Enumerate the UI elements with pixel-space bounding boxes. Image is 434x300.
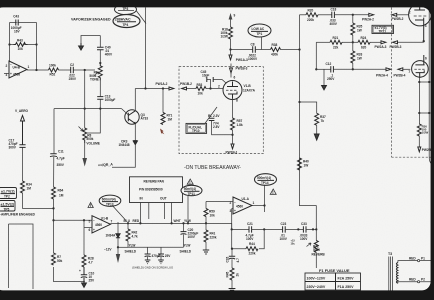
wire collector up [134, 89, 136, 111]
wire minus bus junction [83, 219, 85, 221]
node tone rail [99, 107, 101, 109]
wire box pointer [205, 107, 217, 123]
test point oval TP13 [99, 195, 121, 206]
capacitor C18 [330, 8, 338, 27]
wire vertical C12 rail [315, 42, 317, 69]
node B rail top [298, 48, 300, 50]
connector arrow PW1B-1 [226, 144, 238, 155]
resistor R28 [82, 255, 94, 267]
wire shield row [128, 246, 184, 248]
op-amp U1-A [230, 197, 255, 214]
node R36 top [418, 112, 420, 114]
potentiometer R72 REVERB [312, 241, 326, 257]
node collector row A [144, 87, 146, 89]
node filter left [231, 228, 233, 230]
tube V2-A [409, 3, 432, 41]
shield cap 1 [145, 247, 161, 263]
connector arrow PW2B-7 [418, 147, 432, 152]
wire rail minus chain [83, 235, 85, 255]
resistor R52 [49, 64, 59, 77]
capacitor C45 [201, 70, 227, 89]
capacitor bypass [209, 118, 215, 120]
wire [342, 41, 358, 43]
bypass branch wire [212, 121, 233, 135]
wire arrow stem [117, 247, 119, 254]
wire cathode down [232, 99, 234, 119]
wire oval pointer [137, 11, 147, 24]
ground [82, 278, 87, 288]
wire long rail [145, 8, 147, 89]
capacitor C8 [248, 42, 258, 61]
capacitor C23 [280, 222, 288, 241]
resistor R59 [204, 202, 215, 218]
ground R37 [314, 134, 319, 140]
ground R45 bars [229, 289, 236, 291]
wire [22, 147, 24, 181]
resistor R34 [21, 181, 33, 193]
wire bus to C26 [231, 223, 233, 229]
node C21 right [263, 228, 265, 230]
wire [255, 49, 270, 51]
wire [352, 35, 354, 51]
wire [352, 63, 354, 69]
wire output [252, 205, 265, 207]
node R18 bottom [229, 48, 231, 50]
resistor R44 [246, 242, 258, 256]
ground drop [323, 69, 325, 85]
wire row [231, 49, 253, 51]
resistor R64 [52, 187, 64, 199]
potentiometer R8 VOLUME [83, 128, 100, 146]
wire tone rail to junction [87, 81, 101, 133]
capacitor C10 [79, 267, 95, 283]
connector arrow PW2B-3 [390, 40, 425, 49]
connector arrow PW2B-4 [394, 68, 411, 78]
node bus OUT [170, 222, 172, 224]
capacitor C13 [97, 95, 115, 103]
wire [73, 69, 95, 71]
node collector row B [162, 87, 164, 89]
wire op-amp inputs [4, 66, 10, 74]
capacitor C20 [181, 222, 199, 247]
warning triangle [88, 203, 93, 208]
diode D1 [106, 222, 121, 238]
wire oval pointer [113, 206, 126, 220]
node bus TP11 [187, 222, 189, 224]
wiper arrow volume [79, 127, 84, 132]
node volume tap [84, 107, 86, 109]
fuse table box [305, 273, 361, 290]
node R33 bottom [352, 68, 354, 70]
transformer T3 [388, 252, 433, 291]
wire oval stem [261, 37, 263, 50]
capacitor C33 [300, 222, 309, 241]
wire main rail down [300, 15, 317, 241]
wire minus input row [206, 201, 233, 203]
ground R37 [316, 125, 318, 134]
resistor R57 [231, 118, 243, 130]
wire R37 branch [300, 102, 317, 113]
node output junction [35, 69, 37, 71]
wire signal bus [118, 222, 232, 224]
wire cathode junction [232, 130, 234, 144]
ground R41 [205, 242, 207, 250]
boxed TP label 1 [0, 188, 17, 199]
boxed TP label 2 [0, 201, 15, 212]
ground [79, 43, 84, 50]
capacitor C21 [246, 222, 255, 241]
shield cap 2 [158, 247, 171, 263]
fuse table [319, 268, 350, 273]
wire reverb leads [140, 203, 171, 224]
node -12V row [117, 246, 119, 248]
wire rail to bus [54, 199, 93, 220]
ground R41 bars [203, 250, 209, 254]
capacitor C2 [69, 63, 77, 81]
wire R42 bottom [127, 241, 129, 247]
wire row [118, 246, 128, 248]
wire [370, 41, 381, 43]
resistor R33 [351, 51, 363, 63]
connector arrow PW2B-2 [392, 13, 409, 20]
resistor R20 [306, 8, 318, 21]
tube V1-B [223, 81, 256, 103]
wire volume bottom [84, 143, 86, 158]
wire input drop [83, 220, 85, 227]
node input bus [52, 219, 54, 221]
wire bottom row [54, 267, 85, 282]
resistor R42 [126, 223, 138, 241]
power arrow down [116, 254, 120, 263]
resistor R21 [330, 36, 342, 50]
wire top B row [300, 14, 307, 16]
wire [252, 228, 283, 230]
node cathode V2-B [418, 81, 420, 83]
node pot rail [315, 228, 317, 230]
wire pot bottom [315, 253, 317, 269]
small note [291, 239, 296, 246]
node bus R59 [205, 222, 207, 224]
test point oval TP11 [181, 185, 202, 196]
wire cathode rail [419, 77, 421, 124]
potentiometer R6 TONE [89, 62, 102, 82]
wire to ground [81, 36, 100, 44]
node C23 right [297, 228, 299, 230]
test point oval TP14 [255, 174, 277, 186]
capacitor C12 [326, 62, 336, 81]
wire R7 top [53, 220, 55, 253]
connector arrow PW1B-2 [180, 82, 192, 90]
ground [231, 280, 233, 289]
capacitor C26 [226, 256, 240, 262]
wire signal row [54, 108, 122, 110]
wire base [122, 109, 129, 115]
connector arrow PW2A-4 [376, 68, 391, 78]
wire tone rail up [99, 50, 101, 63]
wire to tube grid [206, 88, 223, 90]
resistor R24 [358, 36, 370, 50]
connector arrow PW1A-3 [229, 50, 248, 62]
wiper arrow tone [94, 72, 99, 76]
capacitor C11 [50, 150, 65, 168]
wire rail R35 [352, 15, 354, 23]
wire R21 row [316, 41, 330, 43]
wire op-amp output [27, 69, 49, 71]
wire plus input [84, 228, 92, 235]
wire [418, 136, 420, 147]
node grid [209, 87, 211, 89]
wire emitter down [134, 124, 136, 141]
resistor R37 [315, 113, 326, 125]
node junction [8, 43, 10, 45]
resistor R45 [226, 268, 240, 280]
capacitor C43 [11, 15, 22, 34]
node plate row [352, 14, 354, 16]
wire oval stem [264, 185, 266, 205]
connector arrow PW1B-3 [230, 64, 248, 73]
tube V2-B [408, 55, 428, 78]
resistor R53 [196, 83, 206, 96]
node cathode [231, 134, 233, 136]
wire filter row [232, 228, 249, 230]
node feedback right [35, 43, 37, 45]
wire [318, 14, 332, 16]
wire [231, 259, 233, 268]
wire op-amp out [111, 223, 119, 225]
connector arrow PW2A-3 [375, 41, 387, 49]
node R34 row [52, 207, 54, 209]
resistor R40 [298, 158, 310, 170]
node U1-A out [263, 204, 265, 206]
test point oval TP3 [115, 5, 137, 15]
op-amp U4 [6, 61, 30, 78]
warning triangle [187, 179, 193, 185]
wire oval stem [187, 196, 189, 224]
wire grid row [187, 88, 197, 90]
resistor R41 [204, 223, 217, 242]
resistor R36 [417, 124, 428, 136]
power arrow B+ [229, 13, 236, 27]
wire C11 rail [53, 109, 55, 187]
measurement notes [208, 114, 220, 129]
wire R43 leads [10, 44, 37, 46]
node R37 branch [298, 101, 300, 103]
wire [285, 228, 303, 230]
power arrow down [82, 158, 87, 167]
wire volume drop [84, 70, 86, 128]
test point oval 288VAC TP4 [113, 15, 140, 28]
capacitor C40 [97, 36, 113, 57]
node C33 right [312, 228, 314, 230]
node bus R42 [127, 222, 129, 224]
wire C26 chain [231, 249, 233, 257]
wire C12 row [316, 68, 331, 70]
wire diode bottom [117, 238, 119, 248]
connector arrow PW2A-2 [362, 13, 374, 21]
node C26 top [231, 248, 233, 250]
warning triangle [270, 189, 276, 195]
ground C12 [322, 86, 327, 90]
node V_AERO [15, 109, 29, 145]
node C10 row [83, 281, 85, 283]
node R35 bottom [352, 41, 354, 43]
wire out drop [264, 206, 266, 213]
wire [306, 228, 316, 230]
wire R59 to bus [205, 217, 207, 224]
wire feedback top [10, 23, 37, 71]
wire [334, 14, 368, 16]
wire feedback loop R44 [232, 229, 265, 248]
reverb pan box [130, 177, 183, 203]
node C2 out [84, 69, 86, 71]
wiper arrow reverb [307, 243, 312, 247]
wire R36 row [419, 112, 429, 114]
transistor Q3 [125, 110, 148, 124]
connector arrow PW1A-2 [156, 82, 174, 90]
wire corner to rail [23, 193, 54, 208]
resistor R38 [271, 43, 281, 57]
boxed TP label TP21 [372, 25, 394, 33]
resistor R7 [52, 253, 63, 265]
diode CR3 [119, 140, 138, 148]
wire plate [230, 73, 232, 78]
wire [59, 69, 71, 71]
wire heater bus [419, 81, 429, 83]
dashed page split [392, 8, 434, 158]
wire collector row [135, 88, 169, 90]
resistor R71 [161, 89, 173, 125]
op-amp U1-B [89, 216, 113, 233]
wire plus input [232, 209, 233, 230]
node C12 left [315, 68, 317, 70]
capacitor C17 [9, 139, 26, 150]
wire [333, 68, 386, 70]
resistor R18 [221, 27, 233, 39]
red mark arrow [160, 129, 164, 135]
wire [281, 49, 300, 51]
blank note box [9, 224, 34, 289]
dashed box ON TUBE BREAKAWAY [179, 67, 263, 154]
node bus IN [139, 222, 141, 224]
test point oval LOW AC TP1 [248, 24, 271, 37]
resistor R35 [351, 23, 363, 35]
wire [230, 39, 232, 50]
resistor R43 [14, 39, 28, 52]
wire emitter corner [112, 145, 135, 168]
boxed TP label FL/DUAL [186, 123, 207, 133]
